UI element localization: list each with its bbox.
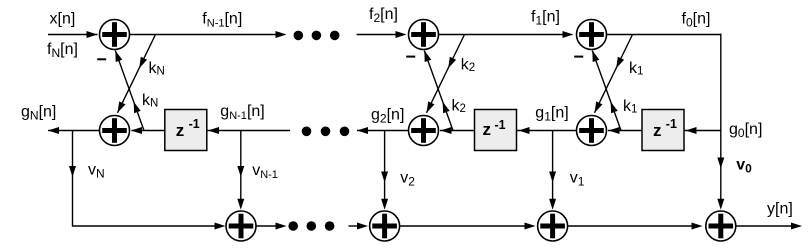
svg-text:kN​: kN​: [149, 60, 165, 78]
svg-text:kN​: kN​: [142, 92, 158, 110]
svg-text:f1​[n]: f1​[n]: [531, 9, 560, 28]
svg-text:fN-1​[n]: fN-1​[n]: [202, 11, 242, 30]
svg-text:-1: -1: [666, 117, 677, 131]
svg-text:f0​[n]: f0​[n]: [682, 11, 711, 30]
svg-text:v2​: v2​: [400, 170, 415, 189]
svg-text:v0​: v0​: [736, 157, 752, 176]
svg-text:k1​: k1​: [623, 98, 637, 116]
svg-text:v1​: v1​: [570, 170, 585, 189]
svg-text:vN​: vN​: [88, 162, 105, 181]
svg-text:gN​[n]: gN​[n]: [21, 104, 56, 123]
svg-text:k2​: k2​: [461, 57, 475, 75]
svg-text:g2​[n]: g2​[n]: [371, 107, 404, 126]
svg-text:gN-1​[n]: gN-1​[n]: [220, 103, 264, 122]
svg-text:g0​[n]: g0​[n]: [729, 121, 762, 140]
svg-text:y[n]: y[n]: [767, 201, 793, 218]
svg-text:vN-1​: vN-1​: [252, 162, 278, 181]
svg-text:-1: -1: [189, 117, 200, 131]
svg-text:g1​[n]: g1​[n]: [535, 105, 568, 124]
svg-text:k1​: k1​: [629, 60, 643, 78]
svg-text:z: z: [653, 121, 662, 140]
svg-text:-1: -1: [495, 118, 506, 132]
svg-text:fN​[n]: fN​[n]: [47, 41, 78, 60]
svg-text:z: z: [483, 120, 492, 139]
svg-text:x[n]: x[n]: [50, 11, 76, 28]
svg-text:z: z: [176, 121, 185, 140]
svg-text:f2​[n]: f2​[n]: [369, 6, 398, 25]
svg-text:k2​: k2​: [452, 98, 466, 116]
